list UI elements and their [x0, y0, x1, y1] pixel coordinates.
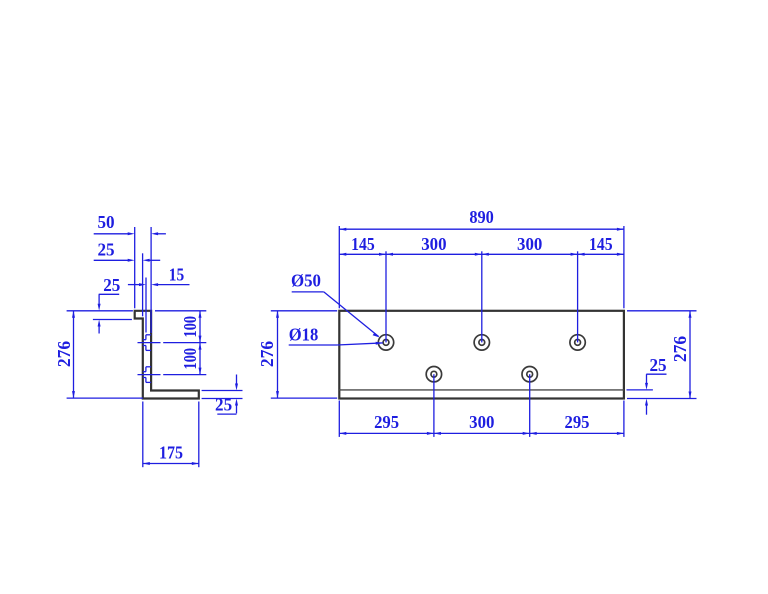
svg-text:890: 890: [469, 207, 494, 227]
L-profile outline: [135, 311, 199, 399]
dimension 25 right of right view: [627, 374, 667, 415]
svg-text:100: 100: [180, 348, 200, 370]
dimension chain 100-100: [199, 311, 202, 375]
svg-text:50: 50: [97, 212, 114, 232]
svg-text:300: 300: [421, 234, 446, 254]
dimension chain 295-300-295: [339, 432, 624, 435]
extension line top edge right: [155, 310, 206, 312]
svg-text:175: 175: [159, 442, 183, 462]
svg-text:25: 25: [649, 355, 666, 375]
extension line hole 2 center: [163, 374, 206, 376]
dimension 175: [143, 402, 199, 468]
svg-text:25: 25: [97, 240, 114, 260]
dimension 276 right of right view: [627, 311, 697, 399]
extension line hole col 2: [481, 251, 483, 342]
extension line hole col 3: [577, 251, 579, 342]
svg-text:300: 300: [517, 234, 542, 254]
dimension 25 top (lip width): [94, 259, 161, 262]
svg-text:15: 15: [169, 265, 184, 285]
extension line right edge top: [623, 226, 625, 308]
hole bottom row 2 inner: [527, 371, 533, 377]
extension line bottom left edge: [338, 401, 340, 437]
extension line B: [142, 253, 144, 316]
svg-text:276: 276: [54, 341, 74, 367]
hole top row 1 inner: [383, 340, 389, 346]
extension line D: [150, 227, 152, 333]
hole bottom row 2 outer: [522, 367, 537, 382]
svg-text:295: 295: [374, 412, 399, 432]
extension line hole col 1: [385, 251, 387, 342]
svg-text:300: 300: [469, 412, 494, 432]
bend line: [339, 389, 624, 391]
hole 2 section lines: [143, 367, 151, 383]
dimension chain 145-300-300-145: [339, 253, 624, 256]
hole top row 2 inner: [479, 340, 485, 346]
plate outline: [339, 311, 624, 399]
dimension 15: [128, 283, 190, 286]
extension line hole 1 center: [163, 342, 206, 344]
svg-text:145: 145: [351, 234, 375, 254]
hole 2 center line: [138, 374, 161, 376]
svg-text:25: 25: [215, 394, 232, 414]
svg-text:276: 276: [257, 341, 277, 367]
hole 1 section lines: [143, 335, 151, 351]
svg-text:25: 25: [103, 275, 120, 295]
hole 1 center line: [138, 342, 161, 344]
extension line bottom right edge: [623, 401, 625, 437]
svg-text:100: 100: [180, 316, 200, 338]
extension line C: [145, 278, 147, 333]
dimension 25 leg thickness: [202, 375, 243, 415]
hole top row 3 inner: [575, 340, 581, 346]
hole top row 2 outer: [474, 335, 489, 350]
hole top row 3 outer: [570, 335, 585, 350]
extension line bottom hole 2: [529, 374, 531, 437]
svg-text:295: 295: [565, 412, 590, 432]
svg-text:Ø50: Ø50: [291, 270, 321, 290]
dimension 50: [94, 232, 166, 235]
dimension 276 left view: [67, 311, 143, 398]
svg-text:276: 276: [670, 336, 690, 362]
svg-text:Ø18: Ø18: [289, 324, 319, 344]
hole bottom row 1 inner: [431, 371, 437, 377]
dimension 25 step height: [93, 294, 132, 333]
leader label D50: [292, 292, 380, 338]
svg-text:145: 145: [589, 234, 613, 254]
extension line bottom hole 1: [433, 374, 435, 437]
extension line left edge top: [338, 226, 340, 308]
leader label D18: [289, 342, 383, 345]
extension line A: [134, 227, 136, 308]
hole top row 1 outer: [378, 335, 393, 350]
dimension 890: [339, 228, 624, 231]
hole bottom row 1 outer: [426, 367, 441, 382]
dimension 276 left of right view: [271, 311, 337, 398]
